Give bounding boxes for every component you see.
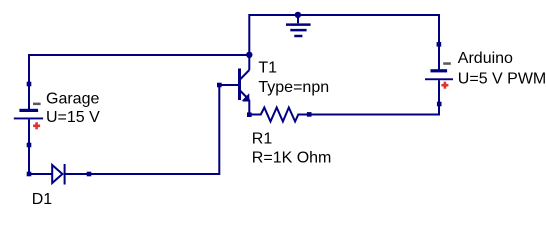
svg-text:Arduino: Arduino — [458, 50, 513, 67]
base bar — [238, 69, 241, 101]
wire from Arduino battery bottom pin down and left to resistor R1 right pin — [309, 104, 439, 115]
svg-text:U=5 V PWM: U=5 V PWM — [458, 70, 546, 87]
junction dot ground node — [295, 12, 301, 18]
minus sign of Garage battery — [33, 103, 41, 106]
plus sign of Arduino battery — [441, 82, 448, 89]
node Garage top pin — [27, 82, 32, 87]
node T1 emitter / R1 left pin — [247, 112, 252, 117]
thick short plate — [19, 109, 38, 112]
wire collector node up, top rail, and down to Arduino battery top pin — [249, 15, 439, 55]
node square dots (component pin connections) — [27, 42, 442, 176]
svg-text:R1: R1 — [252, 131, 273, 148]
collector diagonal — [240, 70, 250, 80]
svg-text:T1: T1 — [258, 60, 277, 77]
anode triangle — [52, 165, 62, 183]
battery V2 Arduino — [425, 44, 453, 104]
top lead — [28, 84, 30, 109]
junction dot collector node — [246, 52, 252, 58]
wire from Garage battery top pin up and right to collector node — [29, 55, 249, 85]
wire from diode D1 cathode pin right and up to T1 base — [89, 85, 219, 174]
svg-text:R=1K Ohm: R=1K Ohm — [252, 150, 332, 167]
cathode bar — [64, 164, 66, 185]
anode lead — [29, 173, 52, 175]
emitter lead — [248, 100, 250, 115]
collector lead — [248, 55, 250, 70]
plus sign of Garage battery — [33, 122, 40, 129]
bottom lead — [28, 119, 30, 145]
node diode D1 cathode pin — [87, 172, 92, 177]
node Arduino top pin — [437, 42, 442, 47]
node Garage bottom pin — [27, 143, 32, 148]
cathode lead — [65, 173, 89, 175]
bottom lead — [438, 80, 440, 104]
svg-text:Type=npn: Type=npn — [258, 79, 329, 96]
ground symbol — [286, 15, 311, 36]
base lead — [219, 84, 239, 86]
top lead — [438, 44, 440, 70]
svg-text:D1: D1 — [32, 191, 53, 208]
emitter diagonal — [240, 90, 250, 100]
battery V1 Garage — [14, 84, 43, 145]
emitter arrow — [243, 100, 250, 102]
node Arduino bottom pin — [437, 102, 442, 107]
svg-text:Garage: Garage — [46, 91, 99, 108]
svg-text:U=15 V: U=15 V — [46, 109, 100, 126]
node R1 right pin — [307, 112, 312, 117]
thin long plate — [425, 78, 453, 80]
resistor R1 — [249, 108, 309, 122]
transistor T1 npn — [219, 55, 249, 115]
wire from Garage battery bottom pin down to diode anode — [28, 145, 30, 175]
minus sign of Arduino battery — [443, 62, 451, 65]
diode D1 — [29, 164, 89, 185]
node diode D1 anode pin — [27, 172, 32, 177]
node T1 base pin — [217, 83, 222, 88]
thin long plate — [14, 118, 43, 120]
thick short plate — [431, 69, 448, 72]
